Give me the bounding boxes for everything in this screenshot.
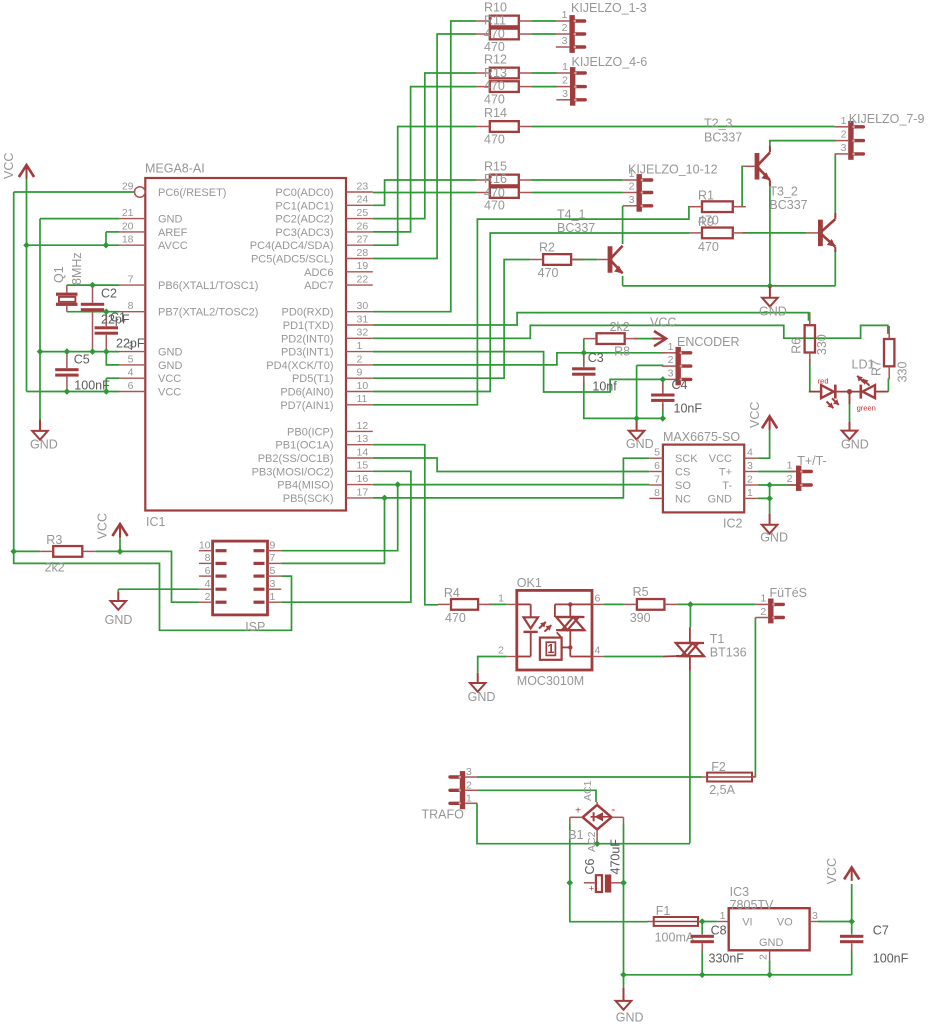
svg-text:BC337: BC337 [704, 131, 742, 145]
svg-text:R12: R12 [484, 52, 507, 66]
svg-text:OK1: OK1 [517, 576, 542, 590]
svg-text:7: 7 [654, 473, 660, 485]
svg-text:1: 1 [787, 460, 793, 472]
svg-text:VI: VI [742, 917, 752, 929]
svg-text:PC3(ADC3): PC3(ADC3) [275, 227, 333, 239]
svg-text:27: 27 [357, 234, 369, 246]
svg-text:VCC: VCC [158, 387, 181, 399]
svg-text:22pF: 22pF [116, 337, 145, 351]
svg-text:PC2(ADC2): PC2(ADC2) [275, 214, 333, 226]
svg-text:5: 5 [654, 447, 660, 459]
svg-text:2: 2 [668, 354, 674, 366]
svg-text:R10: R10 [484, 0, 507, 14]
svg-text:14: 14 [357, 446, 369, 458]
svg-text:GND: GND [158, 360, 183, 372]
svg-text:2: 2 [787, 473, 793, 485]
svg-text:ADC7: ADC7 [304, 280, 333, 292]
svg-text:23: 23 [357, 180, 369, 192]
svg-text:31: 31 [357, 313, 369, 325]
svg-text:18: 18 [122, 234, 134, 246]
svg-text:MAX6675-SO: MAX6675-SO [663, 430, 740, 444]
svg-text:21: 21 [122, 207, 134, 219]
svg-text:C2: C2 [101, 287, 117, 301]
svg-text:30: 30 [357, 300, 369, 312]
svg-text:BC337: BC337 [557, 221, 595, 235]
svg-text:2: 2 [841, 129, 847, 141]
svg-text:BT136: BT136 [710, 646, 747, 660]
svg-text:GND: GND [105, 613, 133, 627]
svg-text:2: 2 [466, 779, 472, 791]
svg-text:+: + [589, 884, 594, 894]
svg-text:GND: GND [759, 305, 787, 319]
svg-text:R13: R13 [484, 66, 507, 80]
svg-text:1: 1 [270, 591, 276, 603]
svg-text:R1: R1 [698, 189, 714, 203]
svg-text:470: 470 [484, 92, 505, 106]
svg-text:VCC: VCC [709, 453, 732, 465]
svg-text:C5: C5 [74, 353, 90, 367]
svg-text:PB5(SCK): PB5(SCK) [283, 493, 334, 505]
svg-text:1: 1 [498, 593, 504, 605]
svg-text:1: 1 [720, 910, 726, 922]
svg-text:R6: R6 [790, 338, 804, 354]
svg-text:1: 1 [547, 642, 554, 656]
svg-text:PB1(OC1A): PB1(OC1A) [275, 440, 333, 452]
svg-text:-: - [611, 802, 615, 816]
svg-text:PC0(ADC0): PC0(ADC0) [275, 187, 333, 199]
svg-text:16: 16 [357, 473, 369, 485]
svg-text:5: 5 [128, 353, 134, 365]
svg-text:NC: NC [675, 493, 691, 505]
svg-text:R3: R3 [46, 533, 62, 547]
svg-text:330nF: 330nF [709, 952, 745, 966]
svg-text:PB2(SS/OC1B): PB2(SS/OC1B) [258, 453, 334, 465]
svg-text:R16: R16 [484, 172, 507, 186]
svg-text:26: 26 [357, 220, 369, 232]
svg-text:F2: F2 [711, 760, 726, 774]
svg-text:4: 4 [128, 367, 134, 379]
svg-text:PC1(ADC1): PC1(ADC1) [275, 200, 333, 212]
svg-text:8: 8 [654, 487, 660, 499]
svg-text:T+/T-: T+/T- [797, 454, 827, 468]
svg-text:F1: F1 [656, 904, 671, 918]
svg-text:8MHz: 8MHz [70, 252, 84, 285]
svg-text:10: 10 [357, 380, 369, 392]
svg-text:SCK: SCK [675, 453, 698, 465]
svg-text:GND: GND [708, 493, 733, 505]
svg-text:PD5(T1): PD5(T1) [292, 373, 334, 385]
svg-text:470: 470 [484, 198, 505, 212]
svg-text:PD4(XCK/T0): PD4(XCK/T0) [266, 360, 333, 372]
svg-text:PB7(XTAL2/TOSC2): PB7(XTAL2/TOSC2) [158, 307, 258, 319]
svg-text:4: 4 [595, 645, 601, 657]
svg-text:GND: GND [158, 347, 183, 359]
svg-text:IC2: IC2 [723, 517, 743, 531]
svg-text:3: 3 [562, 35, 568, 47]
svg-text:28: 28 [357, 247, 369, 259]
svg-text:8: 8 [128, 300, 134, 312]
svg-text:KIJELZO_7-9: KIJELZO_7-9 [849, 112, 925, 126]
svg-text:C1: C1 [110, 311, 126, 325]
svg-text:7805TV: 7805TV [730, 898, 774, 912]
svg-text:GND: GND [30, 437, 58, 451]
svg-text:1: 1 [466, 792, 472, 804]
svg-text:T-: T- [722, 480, 732, 492]
svg-text:GND: GND [616, 1011, 644, 1025]
svg-text:C8: C8 [711, 924, 727, 938]
svg-text:VCC: VCC [2, 153, 16, 179]
svg-text:10: 10 [199, 540, 211, 552]
svg-text:MEGA8-AI: MEGA8-AI [145, 162, 205, 176]
svg-text:PB4(MISO): PB4(MISO) [277, 480, 333, 492]
svg-text:1: 1 [760, 593, 766, 605]
svg-text:1: 1 [668, 341, 674, 353]
svg-text:VCC: VCC [650, 316, 676, 330]
svg-text:2k2: 2k2 [610, 320, 630, 334]
svg-text:2: 2 [562, 22, 568, 34]
svg-text:AVCC: AVCC [158, 240, 188, 252]
svg-text:10nF: 10nF [674, 402, 703, 416]
svg-text:PB3(MOSI/OC2): PB3(MOSI/OC2) [252, 466, 334, 478]
svg-text:C4: C4 [672, 378, 688, 392]
svg-text:470: 470 [484, 132, 505, 146]
svg-text:6: 6 [654, 460, 660, 472]
svg-text:330: 330 [815, 334, 829, 355]
svg-text:BC337: BC337 [769, 198, 807, 212]
svg-text:PD1(TXD): PD1(TXD) [283, 320, 334, 332]
svg-text:1: 1 [629, 168, 635, 180]
svg-text:C7: C7 [873, 924, 889, 938]
svg-text:3: 3 [747, 460, 753, 472]
svg-text:PD7(AIN1): PD7(AIN1) [280, 400, 333, 412]
svg-text:1: 1 [841, 115, 847, 127]
svg-text:2: 2 [760, 606, 766, 618]
svg-text:KIJELZO_1-3: KIJELZO_1-3 [571, 1, 647, 15]
svg-text:330: 330 [896, 361, 910, 382]
svg-text:PD2(INT0): PD2(INT0) [281, 333, 334, 345]
svg-text:VO: VO [777, 917, 793, 929]
svg-text:PD0(RXD): PD0(RXD) [282, 307, 334, 319]
svg-text:SO: SO [675, 480, 691, 492]
svg-text:R5: R5 [633, 585, 649, 599]
svg-text:R11: R11 [484, 13, 506, 27]
svg-text:GND: GND [468, 690, 496, 704]
svg-text:470: 470 [484, 79, 505, 93]
svg-text:R14: R14 [484, 106, 507, 120]
svg-text:KIJELZO_10-12: KIJELZO_10-12 [628, 163, 718, 177]
svg-text:C3: C3 [588, 351, 604, 365]
svg-text:1: 1 [562, 61, 568, 73]
svg-text:5: 5 [270, 565, 276, 577]
svg-text:Q1: Q1 [52, 266, 66, 283]
svg-text:32: 32 [357, 327, 369, 339]
svg-text:T1: T1 [710, 632, 725, 646]
svg-text:VCC: VCC [158, 373, 181, 385]
svg-text:CS: CS [675, 467, 690, 479]
svg-text:4: 4 [747, 447, 753, 459]
svg-text:2k2: 2k2 [45, 561, 65, 575]
svg-text:T+: T+ [719, 467, 732, 479]
svg-text:KIJELZO_4-6: KIJELZO_4-6 [572, 55, 648, 69]
svg-text:390: 390 [630, 611, 651, 625]
svg-text:6: 6 [595, 593, 601, 605]
svg-text:GND: GND [626, 437, 654, 451]
svg-text:3: 3 [841, 142, 847, 154]
svg-text:2: 2 [205, 591, 211, 603]
svg-text:20: 20 [122, 220, 134, 232]
svg-text:6: 6 [205, 565, 211, 577]
svg-text:R8: R8 [614, 344, 630, 358]
svg-text:ISP: ISP [245, 620, 265, 634]
svg-text:100mA: 100mA [655, 931, 695, 945]
svg-text:25: 25 [357, 207, 369, 219]
svg-text:2: 2 [747, 473, 753, 485]
svg-text:470: 470 [538, 266, 559, 280]
svg-text:4: 4 [205, 578, 211, 590]
svg-text:ENCODER: ENCODER [677, 335, 740, 349]
svg-text:VCC: VCC [825, 858, 839, 884]
svg-text:LD1: LD1 [852, 358, 875, 372]
svg-text:2,5A: 2,5A [709, 783, 735, 797]
svg-text:PC6(/RESET): PC6(/RESET) [158, 187, 226, 199]
svg-text:AREF: AREF [158, 227, 188, 239]
svg-text:24: 24 [357, 194, 369, 206]
svg-text:2: 2 [758, 954, 770, 960]
svg-text:19: 19 [357, 260, 369, 272]
svg-text:2: 2 [629, 181, 635, 193]
svg-text:GND: GND [760, 531, 788, 545]
svg-text:MOC3010M: MOC3010M [517, 674, 584, 688]
svg-text:ADC6: ADC6 [304, 267, 333, 279]
svg-text:VCC: VCC [96, 513, 110, 539]
svg-text:7: 7 [270, 552, 276, 564]
svg-text:470: 470 [484, 27, 505, 41]
svg-text:AC1: AC1 [582, 780, 594, 801]
svg-text:VCC: VCC [748, 402, 762, 428]
svg-text:1: 1 [747, 487, 753, 499]
svg-text:3: 3 [629, 194, 635, 206]
svg-text:PC4(ADC4/SDA): PC4(ADC4/SDA) [250, 240, 334, 252]
svg-text:22: 22 [357, 274, 369, 286]
svg-text:PC5(ADC5/SCL): PC5(ADC5/SCL) [251, 254, 334, 266]
svg-text:IC1: IC1 [146, 515, 166, 529]
svg-text:red: red [818, 377, 829, 386]
svg-text:T2_3: T2_3 [704, 117, 733, 131]
svg-text:1: 1 [562, 9, 568, 21]
svg-text:3: 3 [562, 88, 568, 100]
svg-text:FüTéS: FüTéS [770, 586, 808, 600]
svg-text:PB6(XTAL1/TOSC1): PB6(XTAL1/TOSC1) [158, 280, 258, 292]
svg-text:GND: GND [158, 214, 183, 226]
svg-text:+: + [575, 806, 581, 817]
svg-text:R4: R4 [444, 586, 460, 600]
svg-text:8: 8 [205, 552, 211, 564]
svg-text:green: green [857, 404, 876, 413]
svg-text:R9: R9 [698, 215, 714, 229]
svg-text:PB0(ICP): PB0(ICP) [287, 426, 333, 438]
svg-text:B1: B1 [568, 828, 583, 842]
svg-text:6: 6 [128, 380, 134, 392]
svg-text:TRAFO: TRAFO [422, 808, 465, 822]
svg-text:3: 3 [270, 578, 276, 590]
svg-text:IC3: IC3 [730, 885, 750, 899]
svg-text:2: 2 [562, 75, 568, 87]
svg-text:9: 9 [357, 367, 363, 379]
svg-text:3: 3 [466, 766, 472, 778]
svg-text:470: 470 [698, 240, 719, 254]
svg-text:PD3(INT1): PD3(INT1) [281, 347, 334, 359]
svg-text:1: 1 [357, 340, 363, 352]
svg-text:3: 3 [812, 910, 818, 922]
svg-text:11: 11 [357, 393, 368, 405]
svg-text:13: 13 [357, 433, 369, 445]
svg-text:29: 29 [122, 180, 134, 192]
svg-text:15: 15 [357, 460, 369, 472]
svg-text:GND: GND [759, 937, 784, 949]
svg-text:GND: GND [841, 437, 869, 451]
svg-text:T4_1: T4_1 [557, 208, 586, 222]
svg-text:470uF: 470uF [609, 839, 623, 875]
svg-text:R2: R2 [539, 241, 555, 255]
svg-text:T3_2: T3_2 [769, 185, 798, 199]
svg-text:10nf: 10nf [592, 380, 617, 394]
svg-text:C6: C6 [583, 858, 597, 874]
svg-text:2: 2 [357, 353, 363, 365]
svg-text:100nF: 100nF [873, 952, 909, 966]
svg-text:7: 7 [128, 274, 134, 286]
svg-text:12: 12 [357, 420, 369, 432]
svg-text:2: 2 [498, 645, 504, 657]
svg-text:470: 470 [445, 611, 466, 625]
svg-text:PD6(AIN0): PD6(AIN0) [280, 387, 333, 399]
svg-text:9: 9 [270, 540, 276, 552]
svg-text:17: 17 [357, 486, 369, 498]
